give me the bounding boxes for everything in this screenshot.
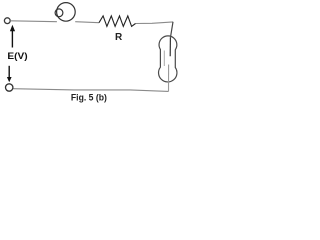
arrow up (voltage annotation upper) [11, 31, 13, 48]
terminal T2 (bottom left open terminal) [6, 84, 13, 91]
arrow down (voltage annotation lower) [8, 66, 10, 78]
lamp B2 left inner lead (faint) [163, 51, 165, 67]
svg-text:Fig. 5 (b): Fig. 5 (b) [71, 93, 107, 103]
wire bottom segment [13, 89, 169, 92]
lamp B2 lower lead through bottom circle to wire [168, 65, 170, 92]
svg-text:E(V): E(V) [7, 51, 27, 62]
wire top-right segment [136, 22, 174, 24]
lamp B1 filament loop (small circle) [55, 9, 63, 17]
lamp B2 outline (vertical bulb: top circle, waist, bottom circle) [159, 36, 177, 82]
wire top-middle segment [75, 22, 99, 23]
terminal T1 (top left open terminal) [4, 18, 10, 24]
svg-text:R: R [115, 32, 123, 43]
lamp B1 envelope (big circle) [57, 3, 76, 22]
resistor R [99, 16, 136, 27]
wire right vertical (corner down to lamp B2) [170, 22, 173, 38]
lamp B2 lead wire (dark, from top wire into bulb) [169, 38, 171, 57]
wire top-left segment [10, 20, 57, 23]
